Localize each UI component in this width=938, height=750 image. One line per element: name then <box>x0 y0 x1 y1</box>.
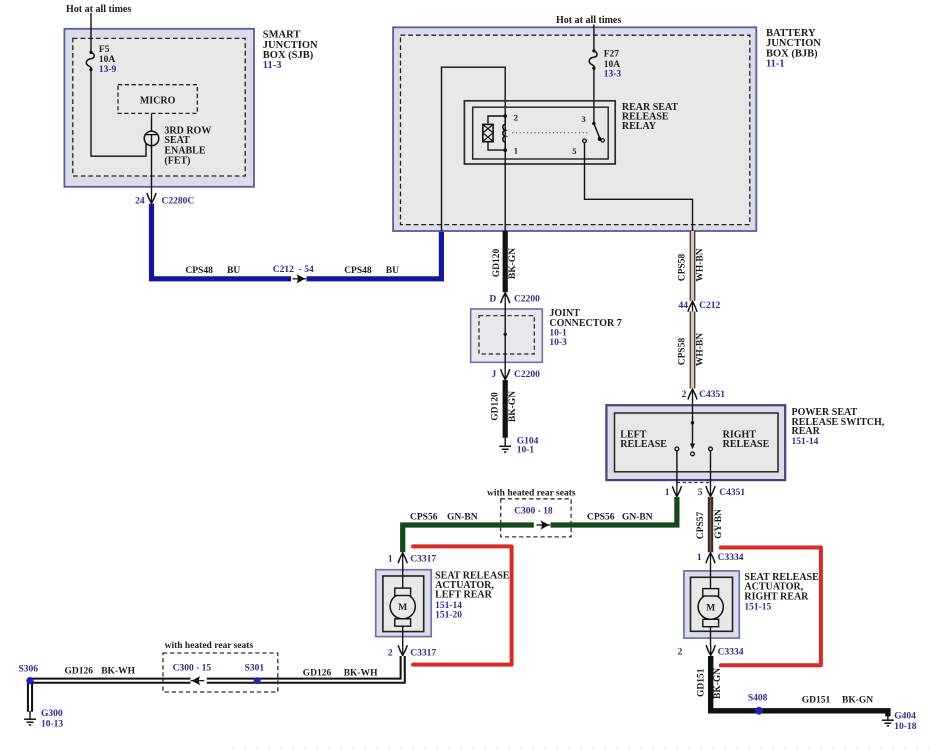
wire: FET drain out of SJB <box>151 146 153 193</box>
svg-text:2: 2 <box>514 113 518 123</box>
transistor 3RD ROW SEAT ENABLE (FET) symbol <box>144 131 159 146</box>
connector C3334 pin 2 arrow <box>706 645 715 656</box>
ground G300 <box>24 711 36 725</box>
svg-text:CONNECTOR 7: CONNECTOR 7 <box>549 318 621 329</box>
red highlight trace (left actuator) <box>413 546 512 664</box>
svg-text:J: J <box>491 370 496 380</box>
svg-text:G404: G404 <box>894 711 916 721</box>
switch inner box <box>615 413 779 472</box>
wire into switch box <box>692 399 694 406</box>
svg-text:WH-BN: WH-BN <box>696 333 706 366</box>
svg-text:REAR: REAR <box>792 426 821 437</box>
svg-text:C300 - 15: C300 - 15 <box>173 663 212 673</box>
wire out of motor (bottom) <box>710 624 712 646</box>
svg-text:C212: C212 <box>699 301 720 311</box>
MICRO box <box>118 85 197 114</box>
ground G104 <box>499 438 511 452</box>
SJB inner dashed border <box>73 38 245 176</box>
wire CPS56 GN-BN (thick green) switch pin1 to C300-18 <box>551 497 677 525</box>
svg-text:1: 1 <box>514 146 518 156</box>
svg-text:C3334: C3334 <box>718 553 744 563</box>
svg-text:2: 2 <box>388 648 393 658</box>
svg-text:BK-GN: BK-GN <box>508 391 518 422</box>
red highlight trace (right actuator) <box>721 548 821 666</box>
wire GD120 BK-GN (thick) C2200 to G104 <box>503 380 508 438</box>
wires: resistor stubs to pins 2 and 1 <box>488 116 505 150</box>
node: joint connector junction dot <box>504 333 507 336</box>
splice S301 <box>254 677 261 684</box>
wire: MICRO to FET gate <box>151 113 153 131</box>
motor M left rear <box>390 594 415 619</box>
svg-text:C4351: C4351 <box>719 488 745 498</box>
wire: S306 down to G300 <box>27 681 33 712</box>
svg-text:10-18: 10-18 <box>894 722 916 732</box>
svg-text:10A: 10A <box>604 60 621 70</box>
connector C3334 pin 1 arrow <box>706 553 715 564</box>
connector C212 pin 44 arrow <box>688 301 697 312</box>
wire: fuse F5 to FET source <box>91 70 146 157</box>
relay resistor (in parallel with coil) <box>483 124 493 141</box>
wire: relay coil pin 2 feed from BU <box>442 67 506 231</box>
svg-text:11-3: 11-3 <box>263 60 282 71</box>
right actuator inner box <box>691 577 733 631</box>
smart junction box SJB outer box <box>64 29 254 187</box>
svg-text:CPS58: CPS58 <box>678 338 688 366</box>
svg-text:CPS57: CPS57 <box>696 512 706 540</box>
left actuator inner box <box>383 576 424 632</box>
dashed option box C300-18 <box>501 499 571 537</box>
fuse F5 10A symbol <box>89 51 92 54</box>
svg-text:C2200: C2200 <box>514 295 540 305</box>
wire CPS58 WH-BN (lower) <box>690 311 696 388</box>
svg-text:F27: F27 <box>604 50 620 60</box>
wire out of motor (bottom) <box>402 623 404 646</box>
svg-text:RELEASE: RELEASE <box>620 439 667 450</box>
splice S408 <box>755 707 763 715</box>
node: relay pin 1 junction <box>503 148 507 152</box>
svg-text:C4351: C4351 <box>699 390 725 400</box>
svg-text:24: 24 <box>135 197 145 207</box>
svg-text:C3317: C3317 <box>410 648 436 658</box>
svg-text:BU: BU <box>386 266 399 276</box>
svg-text:BK-WH: BK-WH <box>344 669 378 679</box>
connector C3317 pin 1 arrow <box>398 553 407 564</box>
svg-text:BK-GN: BK-GN <box>508 248 518 279</box>
svg-text:44: 44 <box>679 301 689 311</box>
svg-text:CPS48: CPS48 <box>344 266 372 276</box>
svg-text:MICRO: MICRO <box>140 96 176 107</box>
connector C2200 pin D arrow <box>501 293 510 304</box>
wire CPS48 BU (thick blue) to BJB <box>307 231 442 279</box>
connector C3317 pin 2 arrow <box>398 645 407 656</box>
seat release actuator left rear outer box <box>376 570 432 637</box>
svg-text:C2200: C2200 <box>514 370 540 380</box>
svg-text:GD120: GD120 <box>492 249 502 278</box>
svg-text:11-1: 11-1 <box>766 59 785 70</box>
svg-text:13-3: 13-3 <box>604 70 622 80</box>
svg-text:Hot at all times: Hot at all times <box>66 4 131 15</box>
svg-text:S408: S408 <box>748 694 768 704</box>
svg-text:BU: BU <box>227 266 240 276</box>
svg-text:GN-BN: GN-BN <box>622 513 653 523</box>
left release contact <box>675 447 679 451</box>
svg-text:151-20: 151-20 <box>435 611 462 621</box>
wire CPS56 GN-BN (thick green) C300-18 to left actuator <box>403 525 534 552</box>
svg-text:GD151: GD151 <box>802 695 831 705</box>
svg-text:GD120: GD120 <box>491 392 501 421</box>
seat release actuator right rear outer box <box>684 571 739 638</box>
wire: hot feed into BJB to fuse F27 <box>593 25 595 51</box>
svg-text:F5: F5 <box>99 45 110 55</box>
in-line connector C212 pin 54 arrow <box>293 274 307 283</box>
svg-text:GY-BN: GY-BN <box>714 509 724 539</box>
svg-text:GN-BN: GN-BN <box>447 513 478 523</box>
svg-text:13-9: 13-9 <box>99 65 117 75</box>
svg-text:GD126: GD126 <box>303 669 332 679</box>
dashed connector bracket below switch <box>677 482 711 484</box>
svg-text:Hot at all times: Hot at all times <box>556 15 621 26</box>
BJB inner dashed border <box>401 35 750 224</box>
connector C4351 pin 1 arrow <box>672 486 681 497</box>
relay REAR SEAT RELEASE RELAY outer box <box>464 101 615 164</box>
svg-text:G300: G300 <box>41 709 63 719</box>
connector C2200 pin J arrow <box>501 369 510 380</box>
svg-text:(FET): (FET) <box>164 155 190 166</box>
svg-text:151-14: 151-14 <box>792 437 819 447</box>
svg-text:CPS56: CPS56 <box>587 513 615 523</box>
fuse F27 10A symbol <box>592 49 595 52</box>
svg-text:2: 2 <box>678 648 683 658</box>
svg-text:CPS58: CPS58 <box>678 254 688 282</box>
svg-text:CPS56: CPS56 <box>410 513 438 523</box>
wire: relay pin 5 to BJB exit <box>585 143 693 231</box>
svg-text:C3317: C3317 <box>410 555 436 565</box>
svg-text:BK-GN: BK-GN <box>842 695 873 705</box>
connector C4351 pin 2 arrow <box>688 389 697 400</box>
svg-text:10-1: 10-1 <box>549 329 567 339</box>
svg-text:1: 1 <box>665 488 670 498</box>
relay actuation dotted line <box>512 132 588 134</box>
svg-text:with heated rear seats: with heated rear seats <box>487 489 576 499</box>
faint cut-off print at page bottom <box>232 747 930 749</box>
wire GD126 BK-WH (black w/ white stripe) actuator to S306 <box>30 656 403 681</box>
svg-text:LEFT REAR: LEFT REAR <box>435 590 493 601</box>
wire: fuse F27 to relay pin 3 <box>593 68 595 123</box>
svg-text:1: 1 <box>388 555 393 565</box>
wire GD151 BK-GN (thick black) actuator to G404 <box>711 656 888 716</box>
svg-text:151-14: 151-14 <box>435 601 462 611</box>
connector C4351 pin 5 arrow <box>706 486 715 497</box>
relay pin 5 contact circle <box>583 139 587 143</box>
splice S306 <box>26 677 33 684</box>
svg-text:C3334: C3334 <box>718 648 744 658</box>
wire into motor (top) <box>402 563 404 590</box>
svg-text:D: D <box>489 295 496 305</box>
svg-text:M: M <box>398 603 407 613</box>
svg-text:3: 3 <box>581 114 585 124</box>
svg-text:5: 5 <box>698 488 703 498</box>
motor M right rear <box>698 594 723 619</box>
svg-text:BK-WH: BK-WH <box>101 667 135 677</box>
wire CPS57 GY-BN (thick brown) <box>708 497 713 552</box>
wire: relay pin 1 to BJB exit <box>504 150 506 231</box>
wire: right contact to pin 5 <box>710 451 712 486</box>
svg-text:BK-GN: BK-GN <box>713 668 723 699</box>
joint connector 7 box <box>471 309 543 362</box>
relay coil between pins 2 and 1 <box>504 116 506 150</box>
connector C2280C pin 24 arrow <box>147 193 156 204</box>
in-line connector C300 pin 15 arrow (gap) <box>191 677 207 685</box>
svg-text:5: 5 <box>572 146 576 156</box>
svg-text:CPS48: CPS48 <box>185 266 213 276</box>
svg-text:2: 2 <box>682 390 687 400</box>
relay inner box <box>473 107 609 159</box>
svg-text:GD151: GD151 <box>697 668 707 697</box>
wire into motor (top) <box>710 563 712 591</box>
svg-text:S306: S306 <box>19 665 39 675</box>
svg-text:RELAY: RELAY <box>622 121 657 132</box>
svg-text:151-15: 151-15 <box>744 602 771 612</box>
node: relay pin 3 pivot dot <box>592 122 595 125</box>
svg-text:1: 1 <box>697 553 702 563</box>
svg-text:RELEASE: RELEASE <box>723 439 770 450</box>
svg-text:C300 - 18: C300 - 18 <box>514 507 553 517</box>
svg-text:RIGHT REAR: RIGHT REAR <box>744 591 809 602</box>
svg-text:M: M <box>706 604 715 614</box>
svg-text:with heated rear seats: with heated rear seats <box>165 641 254 651</box>
power seat release switch outer box <box>606 405 785 480</box>
in-line connector C300 pin 18 arrow <box>537 520 551 529</box>
node: relay pin 2 junction <box>503 114 507 118</box>
svg-text:WH-BN: WH-BN <box>696 248 706 281</box>
svg-text:10-3: 10-3 <box>549 338 567 348</box>
relay switch arm (open) <box>594 124 600 139</box>
right release contact <box>709 447 713 451</box>
svg-text:C212 - 54: C212 - 54 <box>273 265 314 275</box>
svg-text:10-13: 10-13 <box>41 720 63 730</box>
wire: left contact to pin 1 <box>676 451 678 486</box>
wire CPS58 WH-BN (upper) <box>690 231 696 301</box>
svg-text:10-1: 10-1 <box>517 445 535 455</box>
wire GD120 BK-GN (thick) BJB to C2200 <box>503 231 508 292</box>
wire CPS48 BU (thick blue) from C2280C <box>152 204 292 279</box>
svg-text:C2280C: C2280C <box>162 197 195 207</box>
ground G404 <box>882 712 894 726</box>
wire through joint connector <box>504 303 506 369</box>
dashed option box C300-15 <box>163 653 278 692</box>
switch common arm arrowhead and contact <box>690 444 695 450</box>
svg-text:10A: 10A <box>99 55 116 65</box>
wire: hot feed into SJB to fuse F5 <box>90 13 92 52</box>
battery junction box BJB outer box <box>393 27 756 231</box>
switch common feed wire with junction dot <box>692 405 694 444</box>
svg-text:S301: S301 <box>245 663 265 673</box>
svg-text:GD126: GD126 <box>65 667 94 677</box>
